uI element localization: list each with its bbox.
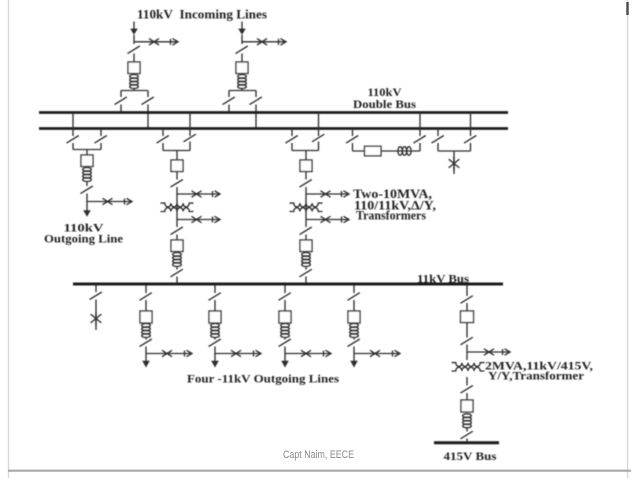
11kV feeder 1 tap arrow	[185, 350, 193, 356]
11kV feeder 4 down arrow	[350, 361, 358, 368]
bus PT stem wire	[453, 151, 455, 174]
11kV feeder 1 circuit breaker	[140, 311, 152, 323]
11kV feeder 2 earthing tap wire	[215, 353, 260, 355]
11kV feeder 2 down arrow	[211, 361, 219, 368]
outgoing feeder A left bus isolator	[67, 136, 79, 144]
page right border top tick	[626, 2, 628, 15]
2MVA feeder wire to 415V bus	[466, 439, 468, 442]
transformer feeder 2 bus-selector bar	[292, 150, 319, 152]
incoming line 2 wire	[241, 88, 243, 91]
transformer feeder 1 LV isolator	[171, 227, 183, 235]
11kV feeder 4 tap arrow	[393, 350, 401, 356]
11kV feeder 3 circuit breaker	[279, 311, 291, 323]
11kV feeder 1 earthing tap wire	[146, 353, 191, 355]
svg-text:Y/Y,Transformer: Y/Y,Transformer	[488, 369, 585, 383]
11kV feeder 2 CT	[211, 324, 220, 338]
svg-text:Capt Naim, EECE: Capt Naim, EECE	[283, 449, 354, 461]
outgoing feeder A left branch wire from bus 1	[72, 113, 74, 137]
11kV feeder 2 wire	[214, 300, 216, 311]
outgoing feeder A bus-selector bar	[73, 149, 101, 151]
11kV bus	[73, 283, 503, 286]
incoming line 2 down arrow	[238, 29, 246, 35]
transformer feeder 1 wire	[176, 172, 178, 180]
transformer feeder 2 LV isolator	[300, 227, 312, 235]
transformer feeder 2 HV earthing tap wire	[306, 193, 348, 195]
2MVA feeder wire	[466, 393, 468, 400]
11kV feeder 2 tap arrow	[254, 350, 262, 356]
transformer feeder 1 right branch wire from bus 1	[189, 113, 191, 137]
2MVA feeder tap wire	[467, 351, 509, 353]
transformer T1 10MVA 110/11kV	[161, 203, 194, 211]
incoming line 2 left branch wire	[228, 91, 230, 98]
11kV feeder 4 wire	[353, 300, 355, 311]
11kV feeder 1 wire	[145, 300, 147, 311]
transformer feeder 2 HV isolator	[300, 180, 312, 188]
transformer feeder 1 bus-selector bar	[163, 150, 190, 152]
11kV feeder 4 circuit breaker	[348, 311, 360, 323]
incoming line 1 right branch wire	[147, 91, 149, 98]
bus coupler CT	[398, 147, 411, 156]
outgoing feeder A CT	[83, 168, 92, 182]
incoming line 2 right bus isolator	[250, 97, 262, 105]
incoming line 1 left bus isolator	[115, 97, 127, 105]
incoming line 2 lead-in wire	[241, 22, 243, 30]
incoming line 2 right branch wire to bus 2	[255, 105, 257, 129]
bus coupler circuit breaker	[365, 146, 382, 156]
2MVA feeder bus isolator	[461, 296, 473, 304]
transformer feeder 1 HV circuit breaker	[171, 160, 183, 172]
page left border	[8, 0, 10, 478]
bus PT right branch wire	[470, 143, 472, 151]
2MVA feeder wire	[466, 345, 468, 361]
bus coupler left wire from bus 2	[352, 129, 354, 137]
svg-text:11kV Bus: 11kV Bus	[417, 272, 469, 286]
incoming line 1 wire	[133, 88, 135, 91]
outgoing feeder A tap arrow	[125, 198, 133, 204]
incoming line 2 tap arrow	[279, 39, 287, 45]
incoming line 1 earthing tap wire	[134, 41, 178, 43]
bus coupler left wire	[352, 143, 354, 151]
11kV feeder 3 down arrow	[281, 361, 289, 368]
transformer feeder 2 HV circuit breaker	[300, 160, 312, 172]
incoming line 1 right branch wire to bus 2	[147, 105, 149, 129]
transformer feeder 1 wire	[176, 266, 178, 270]
incoming line 1 right bus isolator	[142, 97, 154, 105]
11kV PT isolator	[90, 292, 102, 300]
2MVA feeder wire	[466, 377, 468, 386]
transformer feeder 2 LV tap switch	[321, 216, 331, 222]
incoming line 1 wire	[133, 54, 135, 63]
11kV feeder 4 line isolator	[348, 339, 360, 347]
transformer feeder 2 11kV bus isolator	[300, 269, 312, 277]
2MVA feeder LV isolator	[461, 386, 473, 394]
outgoing feeder A wire	[86, 194, 88, 211]
11kV feeder 3 wire	[284, 347, 286, 362]
transformer feeder 1 HV tap arrow	[213, 191, 221, 197]
incoming line 1 tap switch	[149, 39, 159, 45]
outgoing feeder A right bus isolator	[95, 136, 107, 144]
transformer feeder 2 right branch wire from bus 1	[318, 113, 320, 137]
11kV feeder 3 line isolator	[279, 339, 291, 347]
transformer feeder 2 HV tap arrow	[342, 191, 350, 197]
11kV feeder 4 wire	[353, 337, 355, 340]
svg-text:Four -11kV Outgoing Lines: Four -11kV Outgoing Lines	[187, 371, 339, 385]
transformer feeder 2 right bus isolator	[312, 134, 324, 142]
incoming line 2 wire	[241, 35, 243, 44]
incoming line 1 CT	[130, 75, 139, 89]
11kV feeder 2 tap switch	[231, 350, 241, 356]
transformer feeder 1 right bus isolator	[184, 134, 196, 142]
svg-text:Outgoing Line: Outgoing Line	[44, 231, 124, 245]
11kV feeder 1 wire	[145, 347, 147, 362]
2MVA feeder wire	[466, 303, 468, 311]
11kV feeder 1 tap switch	[162, 350, 172, 356]
11kV feeder 3 wire from bus	[284, 286, 286, 294]
transformer feeder 1 LV circuit breaker	[171, 240, 183, 252]
11kV feeder 4 wire from bus	[353, 286, 355, 294]
transformer feeder 2 left bus isolator	[286, 136, 298, 144]
transformer feeder 2 LV earthing tap wire	[306, 219, 348, 221]
incoming line 1 isolator	[128, 46, 140, 54]
11kV feeder 1 wire from bus	[145, 286, 147, 294]
transformer feeder 2 LV tap arrow	[342, 216, 350, 222]
11kV feeder 2 wire	[214, 347, 216, 362]
page right border	[627, 0, 629, 478]
bus PT bar	[438, 150, 471, 152]
11kV feeder 3 wire	[284, 300, 286, 311]
transformer feeder 1 wire	[176, 235, 178, 241]
transformer feeder 1 LV earthing tap wire	[177, 219, 219, 221]
incoming line 2 left bus isolator	[223, 97, 235, 105]
incoming line 2 bus-selector bar	[229, 90, 256, 92]
bus PT right branch wire from bus 1	[470, 113, 472, 137]
outgoing feeder A isolator	[81, 186, 93, 194]
transformer feeder 1 CT	[173, 253, 182, 267]
110kV double bus - bus 1	[39, 111, 508, 114]
bus PT left branch wire from bus 2	[437, 129, 439, 137]
transformer feeder 1 left bus isolator	[157, 136, 169, 144]
bus PT right isolator	[464, 136, 476, 144]
11kV feeder 3 tap arrow	[324, 350, 332, 356]
transformer feeder 1 HV tap switch	[192, 191, 202, 197]
11kV PT symbol	[91, 312, 102, 326]
incoming line 2 circuit breaker	[236, 62, 248, 74]
11kV feeder 3 tap switch	[301, 350, 311, 356]
11kV feeder 3 earthing tap wire	[285, 353, 330, 355]
transformer feeder 1 wire	[176, 151, 178, 161]
11kV feeder 2 line isolator	[209, 339, 221, 347]
transformer feeder 2 wire through transformer	[305, 187, 307, 227]
11kV PT wire from bus	[95, 286, 97, 293]
incoming line 2 tap switch	[257, 39, 267, 45]
incoming line 1 circuit breaker	[128, 62, 140, 74]
transformer feeder 2 wire to 11kV bus	[305, 277, 307, 285]
bus coupler right wire	[419, 143, 421, 151]
2MVA feeder 415V isolator	[461, 431, 473, 439]
11kV feeder 4 earthing tap wire	[354, 353, 399, 355]
2MVA feeder HV circuit breaker	[461, 311, 474, 323]
incoming line 2 left branch wire to bus 1	[228, 105, 230, 113]
bus coupler right isolator	[414, 136, 426, 144]
incoming line 2 wire	[241, 54, 243, 63]
11kV feeder 1 down arrow	[142, 361, 150, 368]
2MVA feeder CT	[463, 414, 472, 428]
11kV feeder 4 CT	[350, 324, 359, 338]
transformer feeder 2 left branch wire from bus 2	[291, 129, 293, 137]
2MVA feeder tap switch	[484, 349, 494, 355]
incoming line 1 tap arrow	[171, 39, 179, 45]
incoming line 2 right branch wire	[255, 91, 257, 98]
transformer T3 2MVA 11kV/415V	[452, 363, 485, 371]
svg-text:110kV Incoming Lines: 110kV Incoming Lines	[137, 7, 267, 21]
2MVA feeder tap arrow	[503, 349, 511, 355]
transformer T2 10MVA 110/11kV	[290, 203, 323, 211]
svg-text:Transformers: Transformers	[356, 209, 426, 223]
outgoing feeder A right branch wire	[100, 143, 102, 150]
11kV feeder 1 line isolator	[140, 339, 152, 347]
transformer feeder 2 LV circuit breaker	[300, 240, 312, 252]
svg-text:415V Bus: 415V Bus	[444, 449, 497, 463]
transformer feeder 2 wire	[305, 151, 307, 161]
transformer feeder 2 wire	[305, 235, 307, 241]
transformer feeder 2 right branch wire	[318, 142, 320, 151]
bus coupler left isolator	[346, 136, 358, 144]
11kV feeder 3 bus isolator	[279, 293, 291, 301]
transformer feeder 2 left branch wire	[291, 143, 293, 151]
2MVA feeder LV circuit breaker	[461, 400, 473, 412]
2MVA feeder wire	[466, 428, 468, 432]
incoming line 2 earthing tap wire	[242, 41, 286, 43]
2MVA feeder wire from 11kV bus	[466, 286, 468, 297]
transformer feeder 1 wire to 11kV bus	[176, 277, 178, 285]
outgoing feeder A left branch wire	[72, 143, 74, 150]
transformer feeder 2 wire	[305, 172, 307, 180]
11kV feeder 1 bus isolator	[140, 293, 152, 301]
transformer feeder 1 11kV bus isolator	[171, 269, 183, 277]
bus coupler right wire to bus 1	[419, 113, 421, 137]
transformer feeder 1 left branch wire from bus 2	[162, 129, 164, 137]
11kV feeder 4 tap switch	[370, 350, 380, 356]
11kV feeder 2 circuit breaker	[209, 311, 221, 323]
svg-text:Double Bus: Double Bus	[353, 97, 416, 111]
transformer feeder 1 LV tap arrow	[213, 216, 221, 222]
incoming line 2 isolator	[236, 46, 248, 54]
transformer feeder 1 LV tap switch	[192, 216, 202, 222]
outgoing feeder A wire	[86, 150, 88, 156]
2MVA feeder wire	[466, 323, 468, 338]
2MVA feeder HV isolator	[461, 337, 473, 345]
bus PT left branch wire	[437, 143, 439, 151]
transformer feeder 2 wire	[305, 266, 307, 270]
transformer feeder 1 right branch wire	[189, 142, 191, 151]
transformer feeder 1 HV isolator	[171, 180, 183, 188]
incoming line 1 left branch wire	[120, 91, 122, 98]
page bottom border	[8, 470, 631, 472]
incoming line 2 CT	[238, 75, 247, 89]
outgoing feeder A down arrow	[83, 210, 91, 217]
bus coupler horizontal wire	[353, 150, 421, 152]
11kV feeder 3 wire	[284, 337, 286, 340]
outgoing feeder A right branch wire from bus 2	[100, 129, 102, 137]
110kV double bus - bus 2	[39, 127, 508, 130]
outgoing feeder A wire	[86, 181, 88, 186]
bus PT symbol	[449, 157, 460, 171]
outgoing feeder A earthing tap wire	[87, 201, 131, 203]
11kV feeder 2 wire from bus	[214, 286, 216, 294]
incoming line 1 down arrow	[130, 29, 138, 35]
11kV feeder 4 bus isolator	[348, 293, 360, 301]
outgoing feeder A circuit breaker	[81, 155, 93, 167]
incoming line 1 lead-in wire	[133, 22, 135, 30]
11kV feeder 1 wire	[145, 337, 147, 340]
incoming line 1 left branch wire to bus 1	[120, 105, 122, 113]
transformer feeder 2 CT	[302, 253, 311, 267]
incoming line 1 bus-selector bar	[121, 90, 148, 92]
11kV PT stem wire	[95, 300, 97, 331]
11kV feeder 4 wire	[353, 347, 355, 362]
transformer feeder 2 HV tap switch	[321, 191, 331, 197]
outgoing feeder A tap switch	[103, 198, 113, 204]
11kV feeder 2 bus isolator	[209, 293, 221, 301]
incoming line 1 wire	[133, 35, 135, 44]
transformer feeder 1 wire through transformer	[176, 187, 178, 227]
transformer feeder 1 left branch wire	[162, 143, 164, 151]
11kV feeder 2 wire	[214, 337, 216, 340]
bus PT left isolator	[432, 136, 444, 144]
11kV feeder 3 CT	[281, 324, 290, 338]
11kV feeder 1 CT	[142, 324, 151, 338]
transformer feeder 1 HV earthing tap wire	[177, 193, 219, 195]
415V bus	[434, 441, 499, 444]
